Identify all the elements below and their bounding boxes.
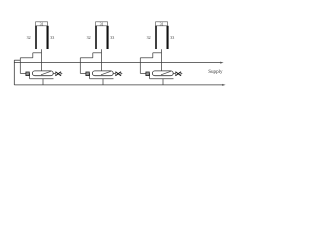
svg-text:Supply: Supply bbox=[208, 69, 223, 75]
svg-text:32: 32 bbox=[27, 35, 31, 40]
svg-text:31: 31 bbox=[40, 21, 44, 26]
svg-text:33: 33 bbox=[50, 35, 54, 40]
